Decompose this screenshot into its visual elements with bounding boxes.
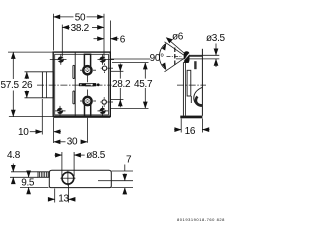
dim 4.8 ext bottom: [10, 176, 38, 178]
left plate inner line: [45, 72, 47, 98]
projection line pin axis: [111, 58, 150, 60]
dim 7 ext mid: [112, 180, 134, 182]
side view hook vertical: [190, 96, 192, 103]
svg-text:8019319018-760 828: 8019319018-760 828: [177, 217, 225, 222]
dim 9.5 line + outside arrows: [28, 171, 30, 177]
dim 28.2 ext top: [111, 70, 124, 72]
dim 45.7 ext top: [112, 62, 149, 64]
dim ø8.5 line + outside arrows: [55, 154, 62, 156]
dim 45.7 line: [144, 63, 146, 109]
dim 16 line + outside arrows: [174, 129, 181, 131]
dim 57.5 line: [12, 52, 14, 79]
dim 50 line: [53, 16, 73, 18]
dim 50 ext right / plate hole ext: [103, 14, 105, 62]
side view right edge: [201, 49, 203, 116]
side view small dark bar: [194, 61, 196, 69]
horizontal centerline: [37, 84, 114, 86]
tab hatch: [39, 172, 41, 178]
dim 38.2 line: [62, 26, 70, 28]
dim 26 ext top: [25, 71, 43, 73]
keyhole upper ring: [83, 66, 91, 74]
bottom view latch tab: [38, 172, 49, 178]
dim 30 line: [54, 141, 66, 143]
screw top-left: [58, 57, 64, 63]
left inner slot lower: [73, 91, 75, 104]
keyhole upper inner square: [86, 69, 90, 73]
dim 57.5 ext bottom: [9, 116, 53, 118]
front view body inner rect (cover): [55, 54, 109, 115]
dim 13 line + outside arrows: [48, 198, 55, 200]
dim 4.8 ext top: [11, 171, 38, 173]
svg-text:50: 50: [75, 13, 86, 24]
side view pin (ø6): [184, 51, 190, 63]
latch slide dark left part: [79, 83, 86, 86]
keyhole lower centerline ticks: [80, 100, 82, 102]
side view hook inner dark curl: [196, 97, 202, 106]
svg-text:38.2: 38.2: [71, 23, 90, 34]
side view bottom thick bar: [180, 116, 202, 119]
dim 26 line: [26, 72, 28, 79]
svg-text:10: 10: [18, 127, 29, 138]
svg-text:57.5: 57.5: [1, 80, 20, 91]
dim 28.2 ext bottom: [111, 99, 124, 101]
90 degree legs: [165, 42, 187, 57]
small circle upper right: [102, 66, 106, 70]
keyhole upper stem: [84, 54, 90, 66]
dim 6 line + outside arrows: [94, 38, 105, 40]
text background gaps: [112, 79, 154, 88]
svg-text:ø3.5: ø3.5: [206, 33, 226, 44]
bottom view body: [49, 170, 111, 187]
ø6 leader: [167, 38, 184, 53]
dimension texts: [1, 13, 226, 205]
90 degree arc: [159, 44, 165, 70]
side view top edge: [189, 55, 203, 57]
svg-text:26: 26: [22, 80, 33, 91]
screw bottom-right: [100, 108, 106, 114]
svg-text:13: 13: [58, 193, 69, 204]
90 arc arrowheads: [162, 43, 166, 51]
keyhole lower inner square: [86, 99, 90, 103]
dim 57.5 ext top: [8, 51, 53, 53]
dim 30 ext right (keyhole stem projection): [86, 118, 88, 143]
centerline side view: [177, 84, 206, 86]
left inner slot upper: [73, 65, 75, 78]
16 ext lines: [180, 119, 182, 133]
side view inner slot: [187, 70, 191, 96]
svg-text:90°: 90°: [150, 53, 165, 64]
dim ø3.5 line + outside arrows: [215, 44, 217, 56]
left plate tab: [42, 72, 53, 98]
dim 10 line + outside arrows: [30, 131, 43, 133]
screw top-right: [100, 57, 106, 63]
svg-text:28.2: 28.2: [112, 79, 131, 90]
front view body bottom thick edge: [53, 116, 110, 118]
pin axis centerline: [167, 56, 183, 58]
keyhole lower stem: [85, 105, 91, 116]
svg-text:9.5: 9.5: [21, 177, 35, 188]
svg-text:ø6: ø6: [172, 32, 184, 43]
dim 28.2 line + outside arrows: [119, 71, 121, 99]
screw bottom-left: [57, 108, 63, 114]
svg-text:45.7: 45.7: [134, 79, 153, 90]
dim 38.2 ext left: [61, 25, 63, 57]
side view left face lines: [182, 63, 184, 116]
ø3.5 shaft lines: [190, 54, 220, 56]
keyhole upper centerline ticks: [80, 69, 82, 71]
dim 10 ext: [41, 99, 43, 135]
bottom view internal line (7 ref): [98, 180, 111, 182]
dim 4.8 line + outside arrows: [12, 164, 14, 172]
hidden line left of pin: [174, 48, 176, 67]
front view body outer rect: [53, 52, 110, 116]
bottom view hole ø8.5: [62, 172, 74, 184]
dim 7 line + arrows: [124, 165, 126, 172]
svg-text:16: 16: [185, 126, 196, 137]
latch slide dark right part: [93, 83, 96, 86]
keyhole lower ring: [83, 97, 91, 105]
dim 50 ext left: [52, 14, 54, 51]
dim 6 ext right: [109, 21, 111, 53]
svg-text:7: 7: [126, 154, 132, 165]
svg-text:ø8.5: ø8.5: [86, 150, 106, 161]
dim 9.5 ext bottom: [20, 186, 49, 188]
svg-text:6: 6: [120, 34, 126, 45]
side view hook outer curve: [194, 87, 203, 106]
dim 7 ext bottom: [112, 187, 134, 189]
small circle lower right: [102, 100, 106, 104]
latch slide dot: [97, 83, 100, 86]
inner vertical plate line: [74, 52, 76, 116]
dim 7 ext top: [112, 170, 134, 172]
latch slide middle outline: [86, 84, 94, 86]
side view shoulder: [183, 62, 188, 64]
svg-text:4.8: 4.8: [7, 150, 21, 161]
svg-text:30: 30: [67, 137, 78, 148]
dim 45.7 ext bottom: [111, 107, 149, 109]
dim ø8.5 ext: [61, 152, 63, 176]
dim 13 ext: [54, 189, 56, 203]
dim 26 ext bottom: [25, 97, 43, 99]
